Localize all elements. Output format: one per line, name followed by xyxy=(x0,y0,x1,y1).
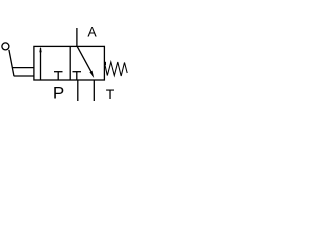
right box blocked P symbol stem xyxy=(76,72,78,80)
left box flow line P to A xyxy=(40,48,42,80)
spring attach block xyxy=(104,62,106,65)
lever arm diagonal xyxy=(9,50,14,76)
right box blocked P symbol bar xyxy=(73,71,82,73)
port A line xyxy=(76,28,78,46)
left box blocked T symbol bar xyxy=(54,71,63,73)
spring zigzag xyxy=(105,62,128,76)
left box arrowhead up xyxy=(39,47,41,53)
left box blocked T symbol stem xyxy=(57,72,59,80)
right box flow line A to T xyxy=(77,46,93,75)
lever knob circle xyxy=(2,43,9,50)
svg-text:A: A xyxy=(87,24,97,40)
3/2-way directional valve, lever actuated with spring return xyxy=(0,0,128,128)
valve body outline xyxy=(34,46,105,80)
svg-text:P: P xyxy=(53,84,64,103)
right box arrowhead down-right xyxy=(89,71,94,78)
port P line xyxy=(77,80,79,101)
lever link upper xyxy=(12,67,34,69)
lever link lower xyxy=(14,75,34,77)
port T line xyxy=(93,80,95,101)
position divider xyxy=(69,46,71,80)
svg-text:T: T xyxy=(106,86,115,102)
